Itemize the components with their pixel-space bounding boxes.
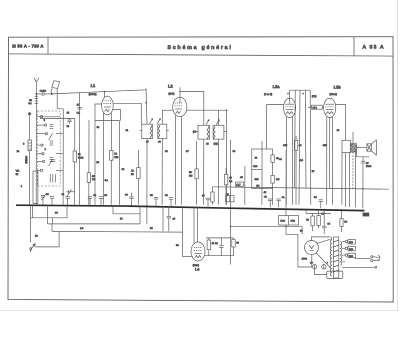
mains switch drop (30, 206, 32, 243)
L1 grid cap lead (104, 92, 106, 98)
svg-text:6,3v: 6,3v (280, 220, 285, 223)
output transformer (350, 144, 356, 152)
L2 cathode drop 1 (174, 115, 176, 204)
svg-text:Schéma général: Schéma général (167, 45, 232, 51)
svg-text:(38: (38 (193, 131, 197, 134)
resistor 42 line (295, 136, 297, 205)
svg-text:37: 37 (202, 195, 205, 198)
svg-text:33: 33 (122, 168, 125, 171)
grid line (74, 118, 76, 204)
band coil b (50, 141, 54, 145)
bypass cap 59 (314, 196, 323, 208)
B+ line 2 (299, 90, 300, 205)
label plate C54 (308, 95, 324, 110)
L3b drop 2 (329, 118, 331, 189)
svg-text:6,3: 6,3 (80, 227, 84, 230)
B+ line 3 (304, 90, 307, 188)
screen feed drop (286, 205, 298, 234)
electrolytic bottom wire (315, 269, 327, 275)
svg-text:58: 58 (344, 220, 347, 223)
heater rail (48, 223, 141, 225)
svg-text:32: 32 (93, 194, 96, 197)
L4 electrodes (194, 248, 202, 258)
svg-text:52b: 52b (255, 178, 260, 181)
L3b electrodes (325, 104, 334, 114)
box top lead (261, 141, 263, 149)
resistor 42 (294, 140, 297, 150)
L2 grid top wire (180, 91, 204, 117)
svg-text:C54: C54 (312, 106, 317, 109)
L3b drop 1 (326, 117, 328, 205)
svg-text:0,5: 0,5 (300, 159, 304, 162)
heater label boxes (279, 216, 299, 225)
gang stator leads (50, 174, 55, 182)
svg-text:36: 36 (165, 150, 168, 153)
grid stopper wire (267, 104, 284, 106)
coupling line (285, 150, 287, 205)
heater wire drop a (47, 205, 49, 224)
B+ top wire (290, 89, 311, 91)
speaker voice coil (367, 144, 371, 151)
feed link drop (305, 211, 307, 214)
svg-text:L3b: L3b (334, 84, 342, 89)
svg-text:43: 43 (206, 142, 209, 145)
svg-text:30: 30 (46, 193, 49, 196)
svg-text:56: 56 (55, 212, 58, 215)
bypass cap 37 (202, 195, 210, 207)
svg-text:35: 35 (150, 194, 153, 197)
L2 plate wire (187, 109, 227, 111)
grid line vertical (146, 88, 147, 124)
svg-text:A 83 A: A 83 A (362, 45, 384, 51)
AVC capacitor 27 (77, 104, 82, 115)
svg-text:40B: 40B (283, 144, 288, 147)
L4 bottom rail (205, 255, 234, 257)
resistor 58 (340, 218, 343, 226)
svg-text:25: 25 (312, 170, 315, 173)
smoothing cap 64 (322, 211, 331, 234)
speaker cone (371, 140, 376, 156)
switch contact 2 (37, 124, 47, 126)
tube L3a envelope (284, 98, 296, 117)
L4 top lead b (197, 206, 199, 242)
svg-text:Cadre: Cadre (40, 89, 47, 92)
svg-text:59: 59 (176, 244, 179, 247)
svg-text:5M: 5M (189, 174, 192, 177)
svg-text:39: 39 (233, 150, 236, 153)
svg-text:110: 110 (349, 241, 353, 244)
IF1a bottom drop (146, 139, 148, 224)
resistor 61 (207, 238, 215, 256)
L1 left lead loop (95, 104, 102, 205)
switch contact 1 (37, 116, 43, 118)
screen drop line (118, 121, 120, 205)
svg-text:25: 25 (67, 112, 70, 115)
band link rung 2 (56, 153, 63, 155)
wiper arrow 2 (49, 159, 53, 166)
band coil c (50, 157, 54, 161)
variable capacitor in gang (51, 160, 55, 162)
svg-text:33: 33 (104, 194, 107, 197)
secondary winding (340, 242, 341, 266)
svg-text:+: + (327, 261, 329, 264)
AVC drop line (244, 166, 246, 205)
svg-text:(C m B): (C m B) (264, 93, 272, 96)
resistor 53 (87, 173, 90, 183)
heater rail lower drop b (162, 206, 164, 231)
svg-text:26: 26 (255, 157, 258, 160)
primary top lead (331, 237, 333, 240)
rectifier tube envelope (305, 241, 319, 255)
rectifier cathode loop (298, 234, 312, 267)
svg-text:M 59 A - 739 A: M 59 A - 739 A (12, 44, 43, 49)
svg-text:52: 52 (16, 173, 19, 176)
bypass cap 40 (264, 195, 272, 207)
svg-text:30: 30 (97, 126, 100, 129)
AF line (272, 189, 274, 205)
transformer bottom box (327, 271, 343, 278)
heater rail lower drop a (51, 224, 53, 231)
svg-text:5: 5 (44, 119, 46, 122)
svg-text:L2: L2 (168, 84, 173, 89)
OT drop a (349, 152, 351, 207)
IF2a bottom drop (203, 139, 205, 205)
tube L2 envelope (173, 97, 187, 116)
svg-text:C1: C1 (28, 112, 32, 115)
antenna coil ticks (35, 96, 39, 103)
svg-text:130: 130 (349, 248, 354, 251)
tube L1 envelope (102, 96, 114, 115)
drop b (31, 206, 33, 218)
bypass cap 35 (150, 194, 158, 206)
bypass cap 34 (125, 193, 134, 206)
svg-text:(39): (39) (214, 142, 218, 145)
padder trimmer (67, 190, 75, 197)
svg-text:4: 4 (21, 185, 23, 188)
volume box on antenna line (33, 171, 38, 204)
svg-text:6: 6 (45, 148, 47, 151)
IF1 link wire (161, 110, 163, 124)
svg-text:220: 220 (349, 255, 354, 258)
svg-text:43: 43 (337, 129, 340, 132)
rectifier top lead (312, 237, 331, 241)
heater rail lower (52, 230, 183, 233)
svg-text:250: 250 (114, 156, 119, 159)
B wire drop (301, 226, 303, 234)
OT drop c (354, 152, 356, 207)
band coil a (50, 125, 54, 129)
volume control box (252, 149, 273, 194)
svg-text:62: 62 (35, 235, 38, 238)
IF1 tuning arrow b (157, 119, 160, 124)
L1 bottom right lead (113, 110, 121, 121)
svg-text:(EF9): (EF9) (168, 93, 174, 96)
svg-text:58: 58 (150, 227, 153, 230)
svg-text:42: 42 (264, 191, 267, 194)
field coil drop a (341, 153, 343, 205)
oscillator line (62, 109, 64, 205)
L1 cathode drop 2 (110, 113, 112, 205)
B wire to power (231, 225, 303, 227)
fixed capacitor 25 (67, 118, 71, 123)
terminal boxes 38 (226, 193, 234, 202)
OT drop b (352, 152, 354, 189)
svg-text:24: 24 (17, 150, 20, 153)
short link wire (113, 206, 140, 214)
svg-text:L1: L1 (91, 83, 96, 88)
L1 cathode drop 1 (102, 112, 104, 204)
electrolytic cap 66 (322, 261, 329, 269)
svg-text:C19: C19 (253, 165, 258, 168)
cadre lead wire (51, 88, 53, 94)
primary winding (330, 240, 331, 276)
bypass cap 41 (276, 196, 285, 207)
rectifier anode diagonal a (317, 239, 331, 243)
field coil drop b (344, 153, 346, 207)
coil column wire (29, 112, 31, 140)
resistor 60 (317, 211, 325, 228)
IF1b bottom drop (161, 139, 163, 205)
transformer bottom wire (357, 152, 370, 157)
mains plug (371, 255, 380, 261)
svg-text:3: 3 (23, 143, 25, 146)
L2 cathode drop 2 (180, 116, 182, 205)
feed link under bus (306, 212, 331, 214)
IF1 coil box a (140, 124, 153, 138)
svg-text:Vol.: Vol. (16, 169, 20, 172)
resistor 54 (110, 150, 113, 160)
title strip divider left (47, 37, 49, 54)
resistor 45 (224, 174, 227, 184)
IF2 tuning arrow b (216, 120, 219, 125)
svg-text:37: 37 (186, 150, 189, 153)
svg-text:C17: C17 (236, 183, 241, 186)
L1 electrodes (103, 101, 111, 112)
svg-text:1M: 1M (276, 178, 279, 181)
IF1 coil box b (158, 124, 169, 138)
IF1 tuning arrow a (150, 119, 153, 124)
antenna (34, 78, 39, 83)
antenna down-lead wire (35, 82, 37, 204)
svg-text:5000: 5000 (366, 165, 372, 168)
svg-text:40: 40 (240, 176, 243, 179)
rectifier filament (309, 245, 314, 250)
svg-text:0,1: 0,1 (105, 179, 109, 182)
svg-text:L4: L4 (195, 267, 199, 271)
B+ line 1 (294, 90, 297, 188)
svg-text:63: 63 (236, 241, 239, 244)
svg-text:34: 34 (125, 193, 128, 196)
resistor 51 (73, 151, 76, 162)
svg-text:39: 39 (173, 217, 176, 220)
IF2a top lead (203, 118, 205, 126)
switch contact 6 (37, 160, 45, 162)
bypass cap 36 (165, 194, 173, 206)
band link rung 1 (56, 133, 63, 135)
svg-text:4M: 4M (256, 184, 259, 187)
svg-text:47: 47 (146, 141, 149, 144)
AF takeoff drop (182, 206, 184, 257)
L3a electrodes (285, 104, 294, 114)
voltage selector taps (342, 240, 377, 269)
rail drop (51, 218, 53, 224)
svg-text:0,1: 0,1 (28, 102, 32, 105)
power transformer core (333, 237, 338, 278)
IF1 link wire b (162, 109, 172, 111)
speaker link (357, 146, 367, 148)
drawing border frame (8, 37, 393, 302)
left oscillator coil box (28, 140, 31, 151)
svg-text:41: 41 (282, 196, 285, 199)
switch return wire (35, 231, 59, 247)
switch contact 7 (37, 169, 42, 171)
box divider drop (261, 189, 263, 205)
svg-text:0,1: 0,1 (229, 180, 233, 183)
svg-text:(52)0,5: (52)0,5 (25, 155, 28, 163)
L4 anode top rail (206, 237, 234, 239)
title strip divider right (353, 37, 355, 56)
rectifier anode diagonal b (316, 253, 331, 268)
svg-text:56: 56 (306, 219, 309, 222)
svg-text:57: 57 (120, 218, 123, 221)
svg-text:48: 48 (158, 141, 161, 144)
svg-text:40: 40 (264, 195, 267, 198)
IF2 tuning arrow a (206, 120, 209, 125)
HT feed to transformer (352, 132, 354, 144)
svg-text:500k: 500k (78, 156, 84, 159)
svg-text:62: 62 (215, 242, 218, 245)
svg-text:64: 64 (327, 222, 330, 225)
field coil supply drop (341, 211, 343, 232)
svg-text:31: 31 (62, 193, 65, 196)
svg-text:50: 50 (67, 125, 70, 128)
resistor 63 (232, 238, 240, 256)
resistor 55 line (196, 141, 198, 205)
band link rung 3 (56, 169, 63, 171)
tube L4 envelope (191, 242, 205, 261)
grid return line (88, 120, 90, 205)
switch contact 3 (37, 133, 47, 135)
svg-text:59: 59 (314, 196, 317, 199)
grid stopper vertical (266, 105, 268, 149)
HT rail wire (213, 187, 390, 189)
dial lamp wire (31, 206, 67, 218)
bypass cap 32 (88, 194, 97, 205)
svg-text:36: 36 (165, 194, 168, 197)
electrolytic cap 65 (310, 261, 317, 269)
detector wire (230, 140, 232, 265)
field coil box (342, 140, 350, 152)
gang top feed lines (39, 116, 61, 118)
svg-text:60: 60 (300, 230, 303, 233)
B+ line 4 (309, 90, 312, 205)
svg-text:C+: C+ (310, 261, 314, 264)
coupling cap 39 (167, 206, 171, 231)
L3a cathode drop 2 (292, 117, 294, 205)
L2 electrodes (175, 103, 183, 114)
long grid top wire (52, 90, 146, 94)
svg-text:L3a: L3a (273, 84, 281, 89)
svg-text:(ECH3): (ECH3) (89, 93, 97, 96)
L2 top lead (179, 87, 181, 103)
svg-text:(C9): (C9) (312, 95, 317, 98)
IF2b top lead (218, 110, 220, 125)
resistor 55 (195, 169, 198, 179)
gang trimmer (41, 193, 46, 204)
frame aerial (cadre) loop (52, 81, 60, 89)
tuning gang dashed enclosure (37, 111, 60, 186)
series antenna capacitor (36, 92, 53, 96)
svg-text:31: 31 (126, 129, 129, 132)
mains switch (30, 243, 36, 252)
svg-text:32: 32 (96, 161, 99, 164)
tube L3b envelope (324, 98, 336, 117)
coil column wire lower (28, 151, 30, 205)
bypass cap 33 (99, 194, 108, 205)
resistor 49 (137, 168, 140, 179)
paper edge right (397, 0, 399, 311)
IF2 coil box b (213, 125, 226, 139)
svg-text:4,5v: 4,5v (290, 220, 295, 223)
AF takeoff horizontal (183, 256, 193, 258)
paper edge bottom (0, 310, 398, 312)
detector drop line (226, 110, 228, 205)
AVC line (78, 93, 80, 205)
chassis ground bus (16, 205, 365, 210)
capacitor 62 (215, 238, 224, 256)
resistor on HT drop (211, 192, 214, 202)
IF2 coil box a (196, 125, 210, 139)
resistor 56b (306, 213, 314, 231)
L4 top lead a (193, 206, 195, 243)
svg-text:(EM4): (EM4) (193, 264, 200, 267)
misc value labels (17, 112, 340, 247)
resistor 45 line (225, 168, 227, 205)
chassis terminal blob (363, 213, 370, 217)
label C17 box (235, 182, 243, 186)
heater wire drop b (139, 206, 141, 224)
L3b drop 3 (332, 117, 334, 205)
bypass cap 30 (46, 193, 54, 205)
bypass cap 31 (62, 193, 70, 205)
L3a cathode drop 1 (285, 117, 287, 205)
wiper arrow 1 (49, 133, 53, 140)
L1 plate wire to IF1 (113, 103, 141, 124)
resistor 46b (271, 176, 274, 184)
title strip bottom rule (9, 54, 394, 56)
cadre right lead wire (57, 88, 63, 108)
HT rail start drop (211, 187, 213, 205)
tone capacitor 57 (361, 157, 365, 209)
plate feed to transformer (336, 105, 346, 141)
svg-text:44: 44 (279, 158, 282, 161)
resistor 46a (271, 155, 274, 162)
svg-text:1883: 1883 (302, 258, 308, 261)
IF2b bottom drop (217, 139, 219, 205)
L3a top lead (289, 90, 291, 103)
resistor 49 line (137, 150, 139, 205)
svg-text:0,1: 0,1 (77, 112, 81, 115)
switch contact 4 (37, 144, 43, 146)
switch contact 5 (37, 153, 44, 155)
svg-text:(CBL6): (CBL6) (329, 93, 337, 96)
svg-text:50: 50 (131, 173, 134, 176)
